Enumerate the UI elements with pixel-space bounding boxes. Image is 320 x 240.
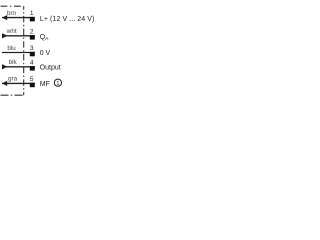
svg-text:blu: blu xyxy=(7,45,16,52)
arrow wht right xyxy=(2,33,8,38)
svg-text:MF: MF xyxy=(40,81,50,88)
wire gra (pin 5) xyxy=(2,82,35,84)
svg-text:1: 1 xyxy=(30,10,34,17)
svg-text:Output: Output xyxy=(40,64,61,71)
svg-text:3: 3 xyxy=(30,45,34,52)
svg-text:0 V: 0 V xyxy=(40,50,51,57)
svg-text:L+ (12 V ... 24 V): L+ (12 V ... 24 V) xyxy=(40,16,95,23)
device boundary dash-dot top edge xyxy=(1,5,24,7)
terminal square pin 5 xyxy=(30,83,35,88)
wire blu (pin 3) xyxy=(2,52,35,54)
svg-text:4: 4 xyxy=(30,59,34,66)
arrow brn left xyxy=(2,15,7,20)
svg-text:1: 1 xyxy=(56,81,59,87)
svg-text:2: 2 xyxy=(30,28,34,35)
wire brn (pin 1) xyxy=(2,17,35,19)
svg-text:wht: wht xyxy=(6,28,17,35)
wire wht (pin 2) xyxy=(2,35,35,37)
svg-text:gra: gra xyxy=(8,76,18,83)
wire blk (pin 4) xyxy=(2,66,35,68)
device boundary dash-dot bottom edge xyxy=(1,94,24,96)
terminal square pin 4 xyxy=(30,66,35,71)
arrow gra left xyxy=(2,81,7,86)
svg-text:5: 5 xyxy=(30,76,34,83)
svg-text:brn: brn xyxy=(7,10,17,17)
arrow blk right xyxy=(2,64,8,69)
terminal square pin 3 xyxy=(30,52,35,57)
device boundary dash-dot right edge xyxy=(23,6,25,95)
terminal square pin 1 xyxy=(30,17,35,22)
terminal square pin 2 xyxy=(30,35,35,40)
svg-text:blk: blk xyxy=(9,59,18,66)
svg-text:QA: QA xyxy=(40,34,49,42)
footnote circled 1 xyxy=(54,79,61,86)
